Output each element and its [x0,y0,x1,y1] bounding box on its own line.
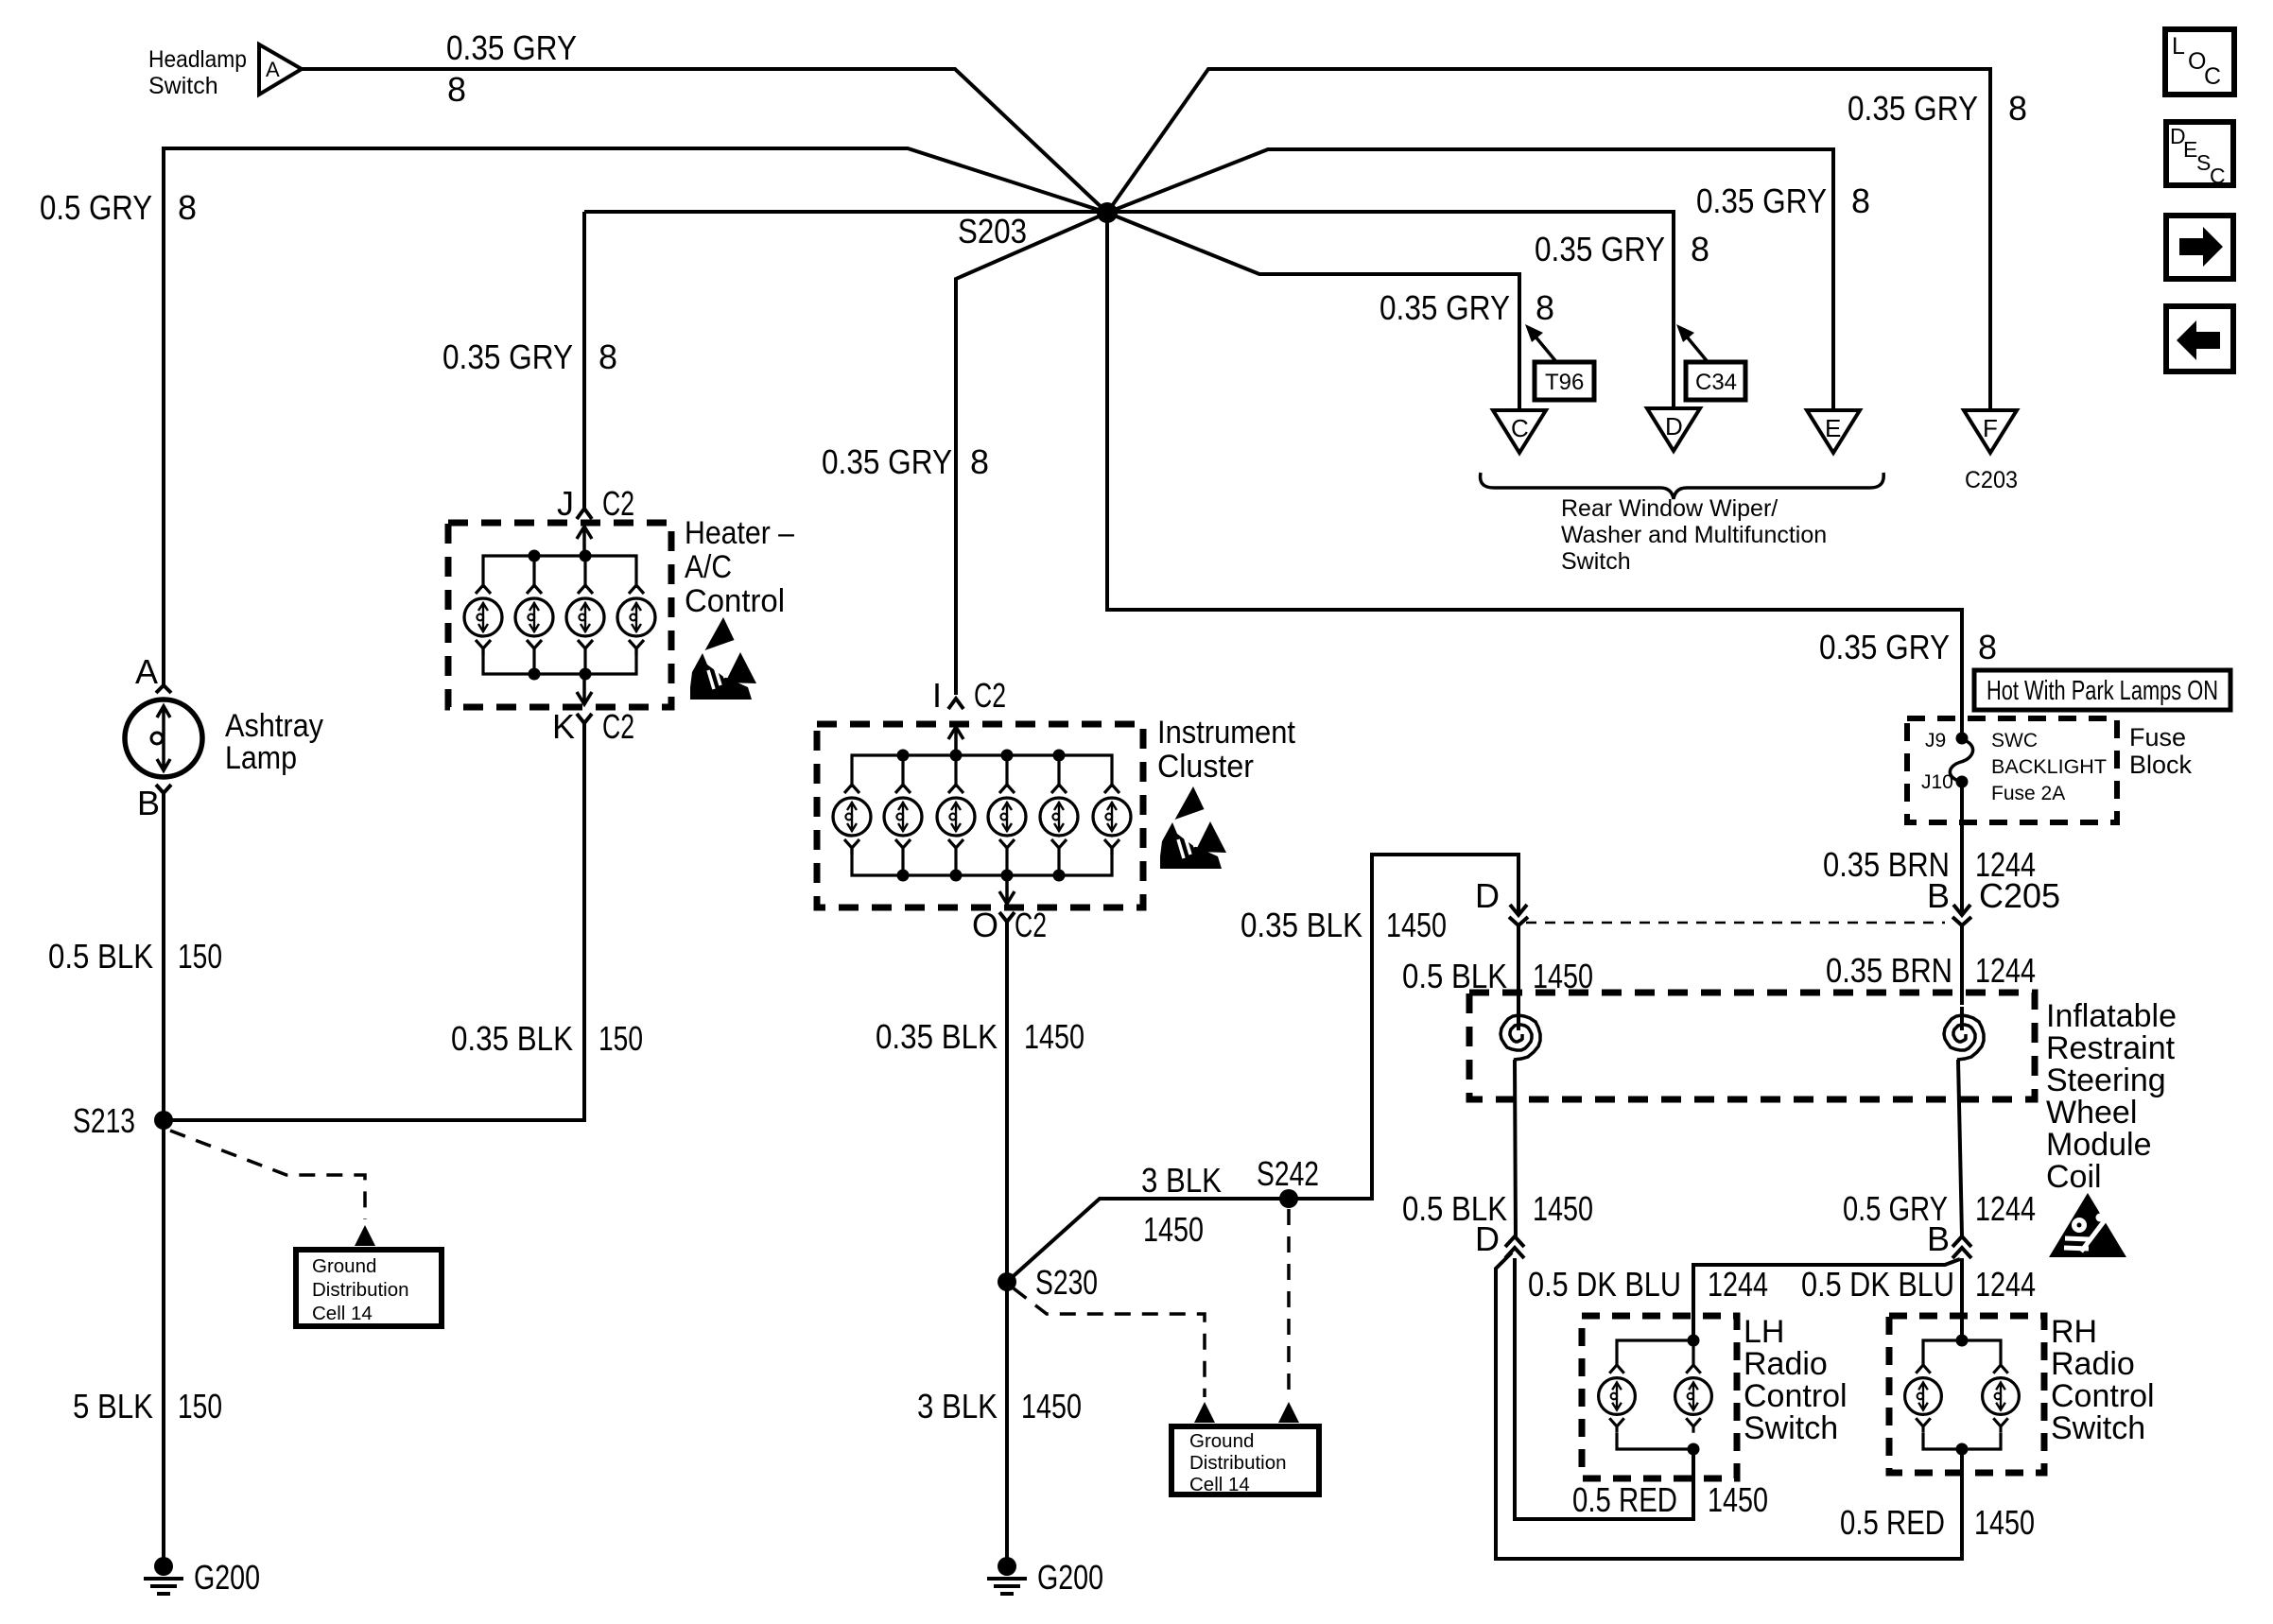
Ground Distribution Cell 14 box (right) [1171,1426,1319,1494]
cluster lamp 2 [884,785,922,855]
svg-text:0.35 GRY: 0.35 GRY [1848,89,1978,128]
svg-text:0.5 BLK: 0.5 BLK [48,937,153,976]
svg-text:Cluster: Cluster [1157,749,1254,785]
Inflatable Restraint coil dashed box [1469,993,2035,1099]
SWC BACKLIGHT fuse element [1950,739,1972,782]
cluster lamp 3 [937,785,975,855]
svg-text:C2: C2 [974,676,1006,715]
svg-text:0.5 DK BLU: 0.5 DK BLU [1801,1265,1954,1304]
wire 0.5 BLK 150 to S213 [162,802,165,1120]
arrow from C34 [1686,336,1709,363]
svg-text:0.5 DK BLU: 0.5 DK BLU [1528,1265,1681,1304]
svg-text:1450: 1450 [1143,1210,1204,1249]
svg-text:C2: C2 [1015,906,1047,944]
svg-text:Lamp: Lamp [225,740,297,776]
svg-text:G200: G200 [194,1558,260,1597]
cluster lamp 5 [1040,785,1078,855]
svg-text:G200: G200 [1037,1558,1103,1597]
svg-text:0.35 BLK: 0.35 BLK [876,1017,998,1056]
ground G200 (center) [998,1557,1016,1576]
svg-text:0.35 GRY: 0.35 GRY [822,442,952,481]
left-arrow icon box [2166,306,2233,371]
svg-text:F: F [1983,414,1998,442]
wire: S203 to C triangle [1107,213,1519,410]
svg-text:BACKLIGHT: BACKLIGHT [1991,756,2107,778]
svg-text:0.5 RED: 0.5 RED [1572,1480,1677,1519]
exit arrow from cluster box [999,875,1015,904]
svg-text:Cell 14: Cell 14 [312,1303,373,1324]
svg-text:B: B [1927,1219,1950,1258]
svg-text:E: E [1825,414,1841,442]
svg-text:8: 8 [1851,181,1870,220]
entry arrow into cluster box [948,727,963,755]
heater lamp 2 [515,585,553,655]
svg-text:I: I [932,676,942,715]
svg-text:Fuse 2A: Fuse 2A [1991,783,2065,804]
cluster bottom bus [852,846,1112,875]
svg-text:Restraint: Restraint [2046,1030,2176,1066]
svg-text:Radio: Radio [2051,1346,2135,1382]
svg-text:C2: C2 [602,707,634,746]
svg-text:J: J [557,484,574,523]
cluster lamp 4 [988,785,1026,855]
Hot With Park Lamps ON box [1974,670,2230,710]
wire: S203 to instrument cluster (I) [956,213,1107,695]
splice S230 [998,1272,1016,1291]
heater lamp 4 [617,585,655,655]
svg-text:A: A [135,652,158,691]
svg-text:C205: C205 [1979,876,2060,915]
wire 0.5 RED 1450 from LH box back up to D [1515,1258,1693,1519]
SIR warning triangle [2049,1193,2126,1257]
connector B inline (below coil) [1952,1236,1971,1258]
connector D triangle [1647,408,1700,451]
svg-text:1450: 1450 [1021,1387,1082,1425]
wire 0.5 DK BLU 1244 : B to RH box and branch to LH box [1960,1258,1964,1340]
svg-text:Rear Window Wiper/: Rear Window Wiper/ [1561,495,1778,522]
connector D inline (below coil) [1505,1236,1524,1258]
svg-text:1450: 1450 [1024,1017,1084,1056]
svg-text:0.35 BLK: 0.35 BLK [1241,906,1362,944]
right-arrow icon box [2166,216,2233,279]
svg-text:0.5 GRY: 0.5 GRY [40,188,152,227]
svg-text:D: D [1475,1219,1500,1258]
svg-text:Washer and Multifunction: Washer and Multifunction [1561,522,1827,548]
svg-text:B: B [137,784,160,822]
svg-text:Heater –: Heater – [685,515,794,551]
LOC icon box [2165,29,2234,95]
svg-text:Control: Control [2051,1378,2155,1414]
LH lamp 1 [1599,1365,1636,1433]
cluster top bus [852,755,1112,787]
svg-text:8: 8 [178,188,197,227]
svg-text:C: C [2210,164,2226,188]
T96 box [1535,362,1594,400]
svg-text:Hot With Park Lamps ON: Hot With Park Lamps ON [1987,676,2218,706]
heater top bus [483,556,636,588]
wire: S203 down then right to fuse block [1107,213,1962,738]
svg-text:A/C: A/C [685,549,732,585]
RH lamp 2 [1983,1365,2020,1433]
svg-text:150: 150 [178,937,222,976]
RH top bus [1923,1340,2001,1365]
svg-text:SWC: SWC [1991,730,2038,752]
wire 0.35 BLK 1450 from O to S230 [1005,931,1009,1282]
svg-text:O: O [972,906,998,944]
svg-text:Control: Control [1744,1378,1848,1414]
svg-text:J10: J10 [1921,771,1953,793]
dashed reference from S213 to ground distribution [170,1131,365,1219]
svg-text:Distribution: Distribution [312,1279,409,1301]
DESC icon box [2166,122,2233,185]
svg-text:Ground: Ground [1189,1430,1254,1452]
svg-text:Steering: Steering [2046,1063,2166,1098]
svg-text:1450: 1450 [1708,1480,1768,1519]
wire: S203 to F triangle [1107,69,1990,410]
connector C triangle [1493,410,1546,453]
svg-text:Radio: Radio [1744,1346,1828,1382]
svg-text:8: 8 [1978,628,1997,666]
Heater-A/C Control dashed box [448,523,671,707]
cluster lamp 6 [1093,785,1131,855]
svg-text:S213: S213 [73,1101,135,1140]
svg-text:T96: T96 [1545,370,1584,395]
svg-text:B: B [1927,876,1950,915]
heater lamp 1 [464,585,502,655]
svg-text:RH: RH [2051,1314,2097,1350]
cluster lamp 1 [833,785,871,855]
svg-text:1244: 1244 [1708,1265,1768,1304]
svg-text:Switch: Switch [1744,1410,1838,1446]
svg-text:8: 8 [599,337,617,376]
svg-text:8: 8 [970,442,989,481]
svg-text:J9: J9 [1925,730,1946,752]
LH lamp 2 [1675,1365,1712,1433]
svg-text:A: A [266,58,280,81]
svg-text:Coil: Coil [2046,1159,2102,1195]
coil (left) [1517,1007,1520,1030]
connector F triangle [1964,410,2017,453]
wire 0.5 GRY 8 : ashtray feed from S203 [164,148,1107,685]
wire: S203 to heater (J) vertical [584,212,1674,408]
wire 0.5 RED 1450 from RH box back up to D [1496,1253,1962,1559]
svg-text:3 BLK: 3 BLK [1141,1161,1222,1200]
ground G200 (left) [154,1557,173,1576]
RH lamp 1 [1905,1365,1942,1433]
ESD icon (heater) [690,617,756,700]
dashed reference from S242 to ground distribution [1287,1209,1291,1397]
svg-text:5 BLK: 5 BLK [73,1387,153,1425]
svg-text:Wheel: Wheel [2046,1095,2137,1131]
svg-text:0.5 RED: 0.5 RED [1840,1503,1945,1542]
svg-text:D: D [1665,412,1683,441]
svg-text:Distribution: Distribution [1189,1452,1287,1474]
svg-text:1450: 1450 [1533,1189,1593,1228]
LH bottom bus [1617,1433,1693,1449]
heater lamp 3 [566,585,604,655]
svg-text:Headlamp: Headlamp [148,46,247,73]
ashtray lamp bulb [125,700,202,777]
svg-text:8: 8 [447,70,466,109]
svg-text:LH: LH [1744,1314,1784,1350]
svg-text:Module: Module [2046,1127,2152,1163]
svg-text:0.35 GRY: 0.35 GRY [446,28,577,67]
svg-text:D: D [1475,876,1500,915]
wire: S203 to E triangle [1107,149,1833,410]
wire 0.35 BLK 150 from K down to S213 branch [164,733,584,1120]
svg-text:8: 8 [1536,288,1554,327]
svg-text:0.35 BLK: 0.35 BLK [451,1019,573,1058]
connector E triangle [1807,410,1860,453]
svg-text:Control: Control [685,583,785,619]
svg-text:0.5 BLK: 0.5 BLK [1402,957,1507,995]
svg-text:1450: 1450 [1974,1503,2035,1542]
Instrument Cluster dashed box [817,724,1143,907]
svg-text:K: K [552,707,575,746]
svg-text:Cell 14: Cell 14 [1189,1474,1250,1495]
heater bottom bus [483,647,636,674]
brace for rear window wiper switch [1481,473,1884,499]
svg-text:C2: C2 [602,484,634,523]
svg-text:8: 8 [1691,230,1709,268]
wire 3 BLK 1450 from S230 to G200 [1005,1282,1009,1562]
svg-text:1244: 1244 [1975,951,2036,990]
svg-text:Ashtray: Ashtray [225,708,323,744]
svg-text:0.35 GRY: 0.35 GRY [442,337,573,376]
svg-text:Block: Block [2129,751,2193,779]
svg-text:1450: 1450 [1386,906,1447,944]
svg-text:0.35 BRN: 0.35 BRN [1826,951,1952,990]
svg-text:Switch: Switch [2051,1410,2145,1446]
svg-text:1244: 1244 [1975,1189,2036,1228]
svg-text:C34: C34 [1695,370,1737,395]
wire 0.35 BRN 1244 from J10 to C205 [1960,782,1964,907]
svg-text:Ground: Ground [312,1255,376,1277]
RH bottom bus [1923,1433,2001,1449]
svg-text:Inflatable: Inflatable [2046,998,2177,1034]
svg-text:C: C [2204,63,2221,90]
splice S242 [1279,1189,1298,1208]
wire 3 BLK 1450 from S230 up-right to S242 riser [1007,855,1518,1282]
svg-text:S203: S203 [958,212,1027,251]
svg-text:S230: S230 [1035,1263,1098,1302]
wire 5 BLK 150 to G200 [162,1120,165,1562]
svg-text:C: C [1511,414,1529,442]
svg-text:L: L [2172,33,2185,60]
svg-text:150: 150 [599,1019,643,1058]
C205 dashed interface line [1526,922,1945,924]
svg-text:150: 150 [178,1387,222,1425]
svg-text:Fuse: Fuse [2129,723,2186,752]
RH Radio Control Switch dashed box [1889,1316,2044,1473]
C34 box [1686,362,1745,400]
svg-text:3 BLK: 3 BLK [917,1387,998,1425]
svg-text:S242: S242 [1257,1154,1319,1193]
Fuse Block dashed box [1907,718,2117,822]
svg-text:0.35 GRY: 0.35 GRY [1535,230,1665,268]
svg-text:Switch: Switch [148,73,218,99]
Ground Distribution Cell 14 box (left) [296,1250,442,1326]
wire from C205-D crossing down to coil (left) [1509,890,1528,925]
coil (right) [1960,1007,1964,1030]
connector A triangle (from Headlamp Switch) [259,44,302,95]
svg-text:Instrument: Instrument [1157,715,1295,751]
svg-text:8: 8 [2008,89,2027,128]
exit arrow from heater box [577,674,592,704]
svg-text:C203: C203 [1965,467,2018,493]
svg-text:0.35 GRY: 0.35 GRY [1819,628,1950,666]
splice S213 [154,1111,173,1130]
LH Radio Control Switch dashed box [1582,1316,1737,1478]
svg-text:0.35 GRY: 0.35 GRY [1696,181,1827,220]
svg-text:1244: 1244 [1975,1265,2036,1304]
dashed reference from S230 to ground distribution [1014,1288,1205,1397]
entry arrow into heater box [577,527,592,556]
arrow from T96 [1535,336,1557,363]
svg-text:0.35 GRY: 0.35 GRY [1379,288,1510,327]
splice S203 junction dot [1097,202,1118,223]
wire 0.35 GRY 8 from A to S203 [302,69,1107,213]
ESD icon (cluster) [1160,786,1226,869]
svg-text:Switch: Switch [1561,548,1631,575]
wire 0.35 BRN 1244 from C205 to coil [1960,926,1964,1005]
LH top bus [1617,1340,1693,1365]
